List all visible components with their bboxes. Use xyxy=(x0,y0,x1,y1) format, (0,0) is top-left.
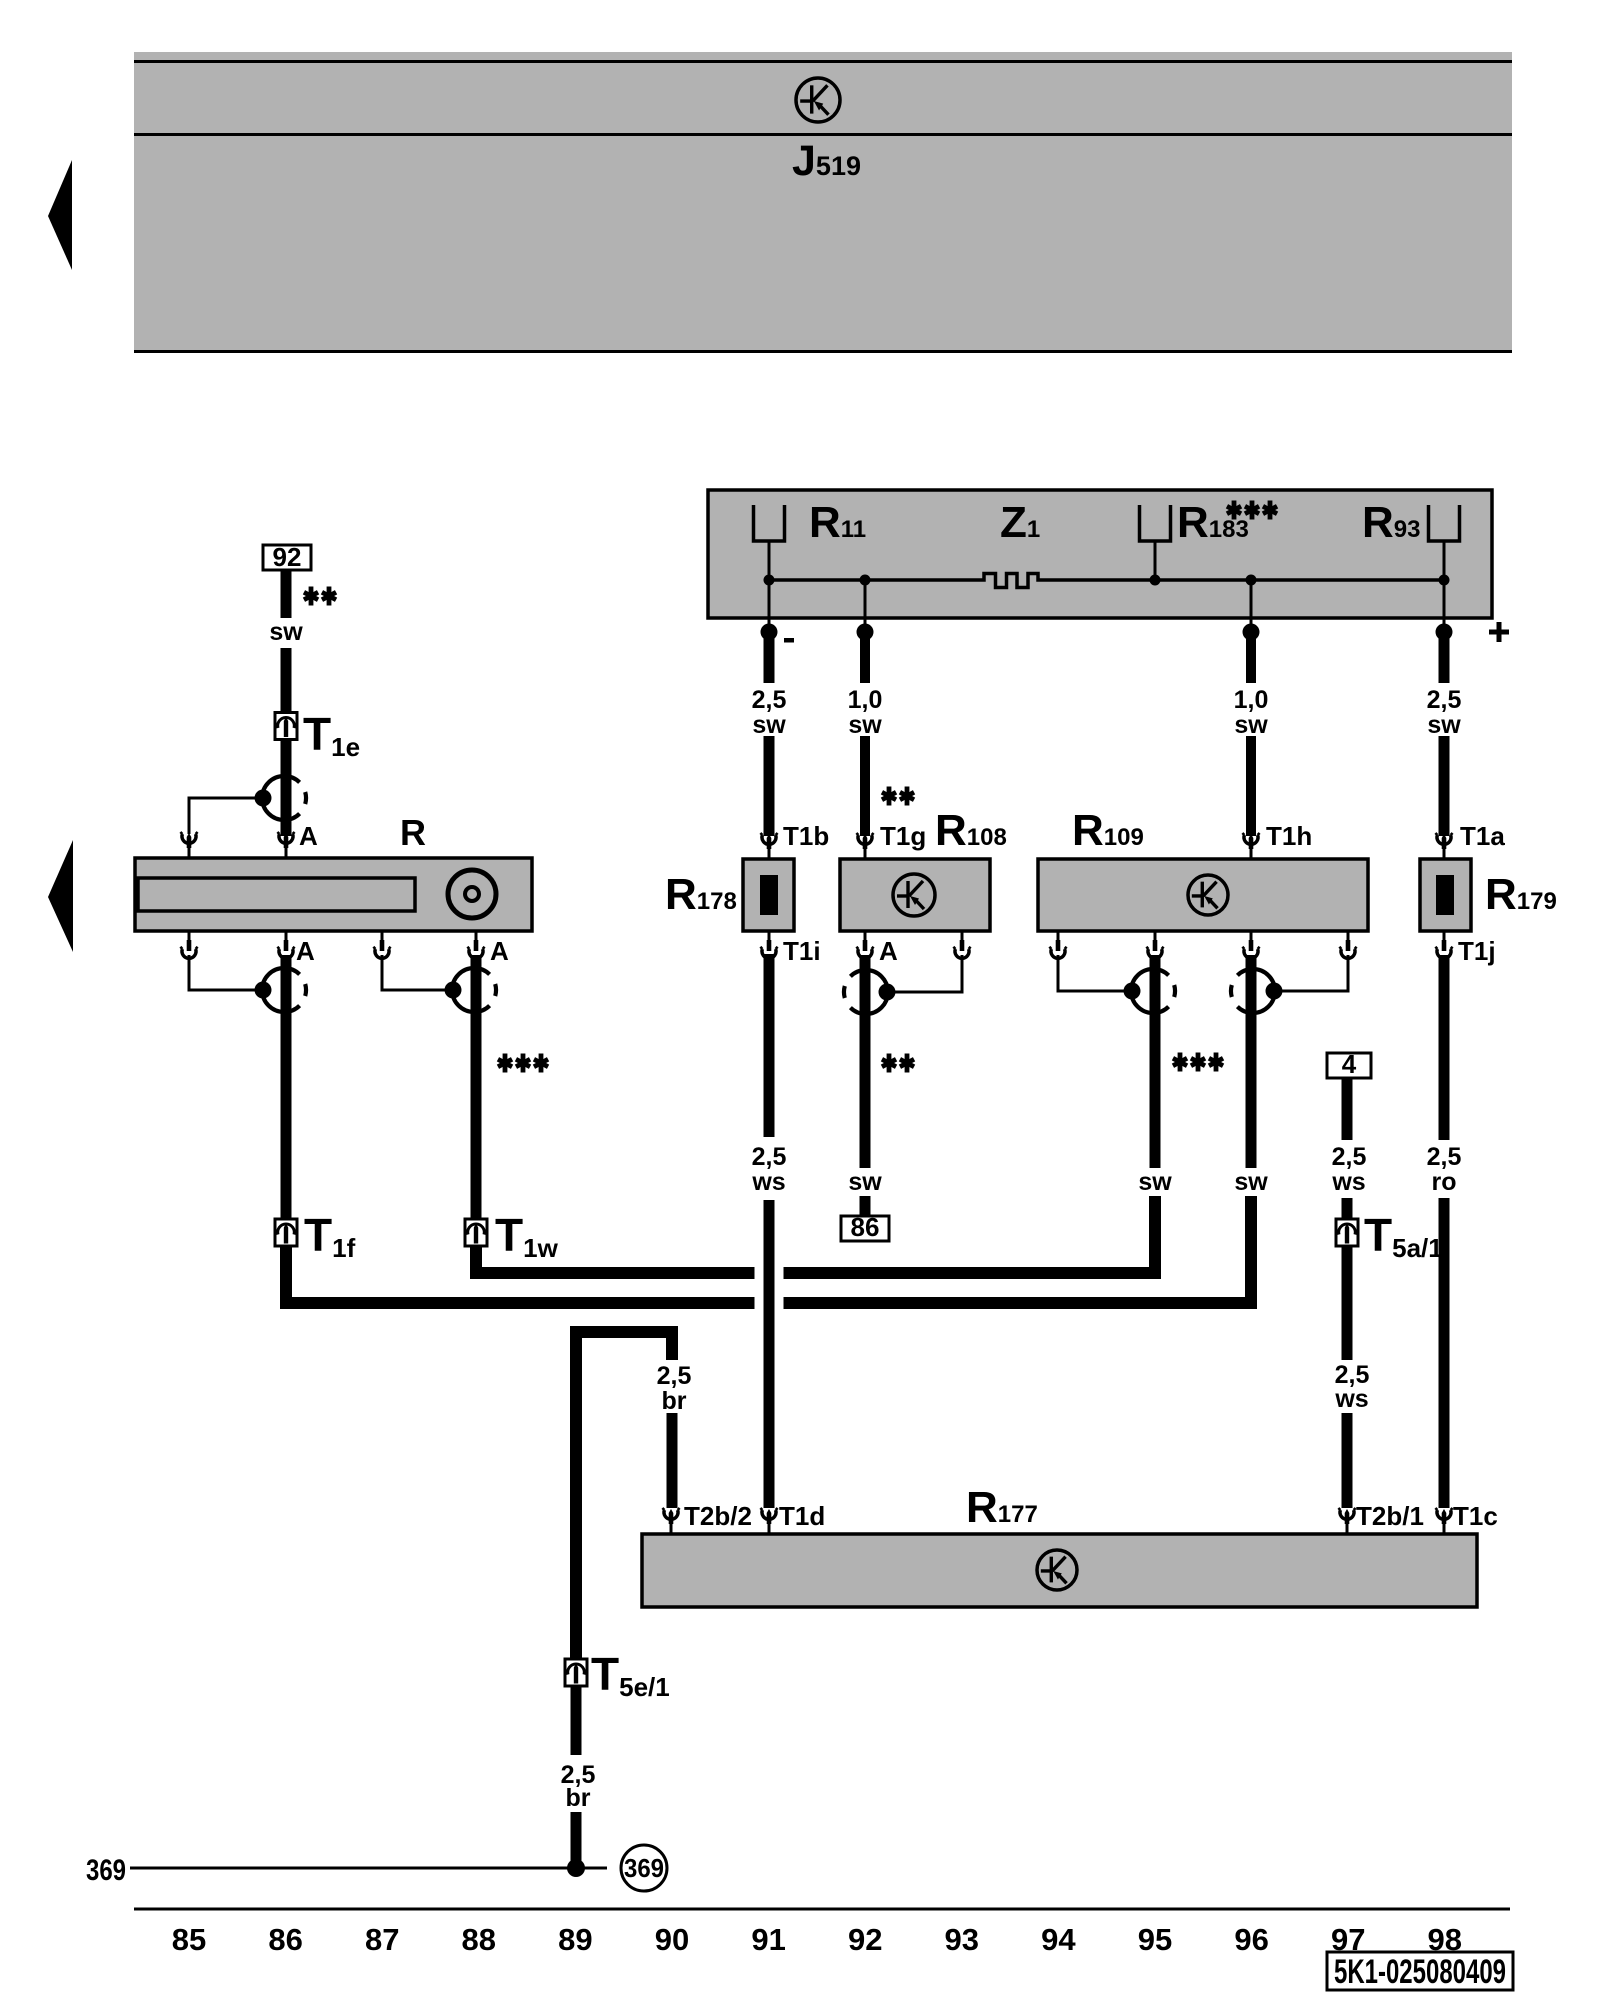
pin T1g xyxy=(864,849,867,859)
wire stub plus output xyxy=(1443,580,1446,624)
svg-text:369: 369 xyxy=(624,1853,664,1883)
svg-text:89: 89 xyxy=(558,1922,592,1957)
pin A at R box bottom left xyxy=(285,931,288,941)
svg-text:94: 94 xyxy=(1041,1922,1076,1957)
wire 2,5 br to ground xyxy=(571,1686,582,1755)
shield loop on wire 95 xyxy=(1131,969,1169,1013)
shield loop on wire 86 xyxy=(262,968,300,1012)
footnote ** xyxy=(303,587,319,606)
junction dot xyxy=(764,575,775,586)
shield loop on wire 96 xyxy=(1237,969,1275,1013)
pin at R109 bottom xyxy=(1250,931,1253,941)
junction dot at ground xyxy=(567,1859,585,1877)
footnote *** above R183 xyxy=(1226,501,1242,520)
svg-text:T1g: T1g xyxy=(880,821,926,851)
wire 2,5 br to T2b/2 xyxy=(667,1413,678,1508)
amplifier R177 box xyxy=(642,1534,1477,1607)
svg-text:A: A xyxy=(296,936,315,966)
svg-text:A: A xyxy=(879,936,898,966)
node dot minus xyxy=(761,624,778,641)
svg-text:sw: sw xyxy=(848,711,882,739)
connector T1f xyxy=(275,1219,297,1246)
amplifier symbol in R109 xyxy=(1188,875,1228,915)
wire 1,0 sw to T1g xyxy=(860,632,870,683)
aerial R box xyxy=(135,858,532,931)
pin T1h xyxy=(1250,849,1253,859)
pin at R108 bottom xyxy=(961,931,964,941)
resistor R178 box xyxy=(743,859,794,931)
svg-text:sw: sw xyxy=(752,711,786,739)
speaker symbol in R xyxy=(448,870,496,918)
heating element symbol in R179 xyxy=(1436,875,1454,915)
pin T1d xyxy=(768,1524,771,1534)
svg-text:91: 91 xyxy=(751,1922,785,1957)
svg-text:1,0: 1,0 xyxy=(1234,686,1269,714)
internal bus wire in antenna box xyxy=(769,578,982,582)
wire from T1e to pin A of R xyxy=(281,740,292,837)
wire sw from R109 right xyxy=(1246,955,1257,1168)
diagram number box xyxy=(1327,1952,1513,1990)
svg-text:92: 92 xyxy=(273,542,302,572)
pin T1j xyxy=(1443,931,1446,941)
svg-text:369: 369 xyxy=(86,1854,126,1887)
wire 2,5 ro from T1j to T1c xyxy=(1439,955,1450,1140)
pin T1c xyxy=(1443,1524,1446,1534)
junction dot xyxy=(860,575,871,586)
pin T1i xyxy=(768,931,771,941)
page arrow left top xyxy=(48,160,72,270)
pin at R109 bottom xyxy=(1347,931,1350,941)
svg-text:2,5: 2,5 xyxy=(657,1362,692,1390)
svg-text:br: br xyxy=(662,1387,687,1415)
svg-text:T2b/1: T2b/1 xyxy=(1356,1501,1424,1531)
svg-text:95: 95 xyxy=(1138,1922,1172,1957)
svg-text:93: 93 xyxy=(945,1922,979,1957)
svg-text:2,5: 2,5 xyxy=(1427,1143,1462,1171)
shield drain wire xyxy=(189,798,263,834)
wire from R pin A to T1f xyxy=(281,955,292,1219)
svg-text:sw: sw xyxy=(1234,711,1268,739)
svg-text:2,5: 2,5 xyxy=(752,686,787,714)
bus wire from T1f xyxy=(286,1246,755,1303)
junction dot xyxy=(1439,575,1450,586)
svg-text:ws: ws xyxy=(1331,1168,1365,1196)
wire sw from terminal 92 xyxy=(281,570,292,618)
svg-text:2,5: 2,5 xyxy=(1427,686,1462,714)
bus wire from T1w xyxy=(476,1246,755,1273)
terminal symbol for R183 xyxy=(1140,505,1171,541)
heating element symbol in R178 xyxy=(760,875,778,915)
svg-text:88: 88 xyxy=(462,1922,496,1957)
svg-text:85: 85 xyxy=(172,1922,206,1957)
connector T5a/1 xyxy=(1336,1219,1358,1246)
footnote ** xyxy=(881,1054,897,1073)
control module J519 box xyxy=(134,52,1512,353)
svg-text:sw: sw xyxy=(269,618,303,646)
svg-text:br: br xyxy=(566,1784,591,1812)
connector T1e xyxy=(275,713,297,740)
svg-text:2,5: 2,5 xyxy=(1332,1143,1367,1171)
shield loop at R pin A xyxy=(262,776,300,820)
svg-text:T1j: T1j xyxy=(1458,936,1496,966)
svg-text:ws: ws xyxy=(1334,1385,1368,1413)
junction dot xyxy=(1246,575,1257,586)
amplifier symbol in R177 xyxy=(1037,1550,1077,1590)
wire from R pin A to T1w xyxy=(471,955,482,1219)
svg-text:92: 92 xyxy=(848,1922,882,1957)
footnote *** xyxy=(497,1054,513,1073)
footnote ** at T1g xyxy=(881,787,897,806)
svg-text:sw: sw xyxy=(1427,711,1461,739)
svg-text:86: 86 xyxy=(268,1922,302,1957)
svg-text:T1i: T1i xyxy=(783,936,821,966)
pin at R109 bottom xyxy=(1057,931,1060,941)
node dot plus xyxy=(1436,624,1453,641)
shield drain wire xyxy=(888,955,962,992)
svg-text:ro: ro xyxy=(1432,1168,1457,1196)
svg-text:sw: sw xyxy=(1234,1168,1268,1196)
pin at R box bottom xyxy=(188,931,191,941)
pin at R box top xyxy=(188,848,191,858)
amplifier symbol in R108 xyxy=(893,874,935,916)
wire 2,5 br jog xyxy=(576,1332,672,1659)
svg-text:T2b/2: T2b/2 xyxy=(684,1501,752,1531)
pin T1b xyxy=(768,849,771,859)
pin T2b/2 xyxy=(670,1524,673,1534)
bottom rail xyxy=(134,1908,1510,1911)
antenna module box (R11/Z1/R183/R93) xyxy=(708,490,1492,618)
svg-text:R: R xyxy=(400,812,426,853)
terminal symbol for R93 xyxy=(1429,505,1460,541)
resistor R179 box xyxy=(1420,859,1471,931)
wire 2,5 ws from T5a/1 to T2b/1 xyxy=(1342,1246,1353,1360)
connector T1w xyxy=(465,1219,487,1246)
svg-text:T1b: T1b xyxy=(783,821,829,851)
shield drain wire xyxy=(1274,955,1348,991)
page arrow left middle xyxy=(48,840,73,952)
wire stub xyxy=(1250,580,1253,624)
svg-text:86: 86 xyxy=(851,1212,880,1242)
svg-text:T1h: T1h xyxy=(1266,821,1312,851)
wire 1,0 sw to T1h xyxy=(1246,632,1256,683)
minus sign xyxy=(784,638,794,643)
amplifier R108 box xyxy=(840,859,990,931)
plus sign xyxy=(1489,630,1509,635)
svg-text:A: A xyxy=(299,821,318,851)
node dot xyxy=(1243,624,1260,641)
svg-text:87: 87 xyxy=(365,1922,399,1957)
wire 2,5 ws from terminal 4 xyxy=(1342,1078,1353,1140)
terminal symbol for R11 xyxy=(754,505,785,541)
pin A at R108 bottom xyxy=(864,931,867,941)
connector T5e/1 xyxy=(565,1659,587,1686)
shield loop on wire 92 xyxy=(850,970,888,1014)
svg-text:T1a: T1a xyxy=(1460,821,1505,851)
ground node 369 circle xyxy=(621,1845,667,1891)
wire stub xyxy=(864,580,867,624)
svg-text:sw: sw xyxy=(848,1168,882,1196)
shield loop on wire 88 xyxy=(452,968,490,1012)
pin T1a xyxy=(1443,849,1446,859)
wire 2,5 ws from T1i to T1d xyxy=(764,954,775,1137)
ground wire 369 xyxy=(130,1867,607,1870)
pin A at R box bottom right xyxy=(475,931,478,941)
wire sw from R108 pin A xyxy=(860,955,871,1168)
amplifier R109 box xyxy=(1038,859,1368,931)
terminal 4 box xyxy=(1327,1053,1371,1078)
shield drain wire xyxy=(1058,955,1132,991)
terminal 92 box xyxy=(263,545,311,570)
svg-text:4: 4 xyxy=(1342,1049,1357,1079)
antenna rod symbol in R xyxy=(138,878,415,911)
svg-text:T1c: T1c xyxy=(1453,1501,1498,1531)
amplifier symbol in J519 xyxy=(796,78,840,122)
footnote *** xyxy=(1172,1053,1188,1072)
pin at R109 bottom xyxy=(1154,931,1157,941)
pin at R box bottom xyxy=(381,931,384,941)
pin A at R box top xyxy=(285,848,288,858)
svg-text:2,5: 2,5 xyxy=(752,1143,787,1171)
terminal 86 box xyxy=(841,1216,889,1241)
pin T2b/1 xyxy=(1346,1524,1349,1534)
svg-text:90: 90 xyxy=(655,1922,689,1957)
junction dot xyxy=(1150,575,1161,586)
svg-text:ws: ws xyxy=(751,1168,785,1196)
svg-text:T1d: T1d xyxy=(779,1501,825,1531)
node dot xyxy=(857,624,874,641)
shield drain wire xyxy=(382,955,453,990)
wire 2,5 sw from plus to T1a xyxy=(1439,632,1450,683)
svg-text:sw: sw xyxy=(1138,1168,1172,1196)
svg-text:1,0: 1,0 xyxy=(848,686,883,714)
wire sw from R109 xyxy=(1150,955,1161,1168)
shield drain wire xyxy=(189,955,263,990)
svg-text:5K1-025080409: 5K1-025080409 xyxy=(1334,1953,1506,1991)
wire stub minus output xyxy=(768,580,771,624)
svg-text:96: 96 xyxy=(1234,1922,1268,1957)
svg-text:A: A xyxy=(490,936,509,966)
wire 2,5 sw from minus to T1b xyxy=(764,632,775,683)
